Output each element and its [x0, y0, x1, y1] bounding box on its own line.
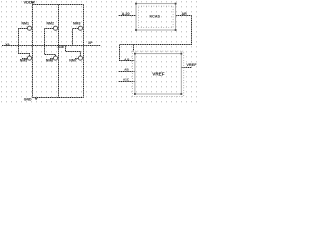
svg-text:GND: GND	[24, 98, 32, 102]
svg-text:A1E: A1E	[58, 45, 65, 49]
svg-text:NM6: NM6	[46, 58, 53, 62]
svg-text:NM3: NM3	[73, 22, 80, 26]
svg-text:NM2: NM2	[47, 22, 54, 26]
svg-text:NM1: NM1	[22, 22, 29, 26]
svg-text:XP: XP	[88, 41, 93, 45]
svg-text:VREF: VREF	[186, 63, 197, 67]
svg-text:NM7: NM7	[69, 59, 76, 63]
svg-text:NM5: NM5	[20, 59, 27, 63]
svg-text:A.B: A.B	[124, 58, 130, 62]
svg-text:VDD: VDD	[24, 0, 33, 5]
svg-text:KCAS: KCAS	[150, 15, 161, 19]
svg-text:A1C: A1C	[123, 77, 130, 81]
svg-text:VREF: VREF	[152, 71, 164, 76]
svg-text:X9: X9	[5, 43, 9, 47]
svg-text:A.20: A.20	[122, 12, 130, 16]
svg-text:AR: AR	[182, 12, 188, 16]
